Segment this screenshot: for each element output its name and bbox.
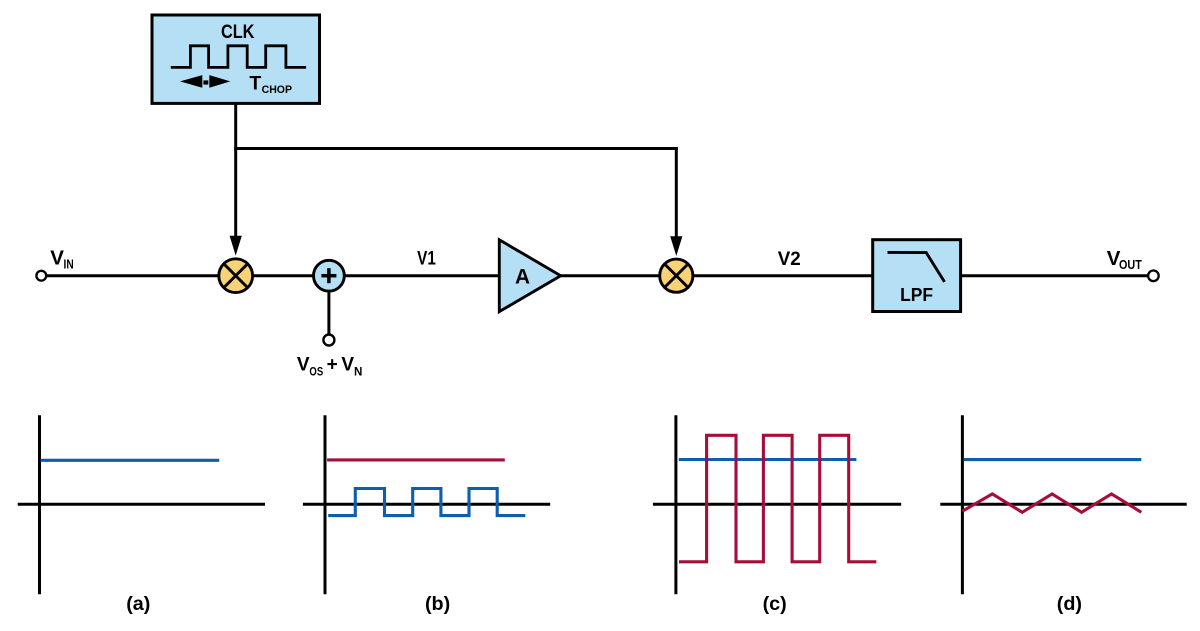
Vos+Vn label — [297, 354, 362, 378]
CLK square wave icon — [171, 46, 306, 68]
mixer M2 (demod multiplier) — [660, 259, 693, 292]
wire M1 to summer — [253, 274, 314, 277]
svg-text:LPF: LPF — [900, 284, 933, 305]
graph a blue DC trace — [41, 459, 220, 462]
svg-text:(c): (c) — [763, 593, 787, 615]
summing junction S1 — [314, 260, 345, 291]
wire M2 to LPF — [693, 274, 874, 277]
Tchop label — [249, 73, 292, 97]
Tchop double arrow — [180, 75, 230, 88]
svg-text:V: V — [297, 354, 310, 375]
svg-text:A: A — [515, 265, 530, 288]
wire summer to amp — [344, 274, 500, 277]
wire CLK to mixer M1 (vertical) — [234, 103, 237, 238]
graph d red ripple trace — [962, 494, 1141, 512]
svg-text:IN: IN — [64, 258, 74, 272]
wire clock branch down to M2 — [675, 147, 678, 239]
arrowhead into M1 — [230, 236, 242, 256]
wire summer to Vos terminal — [327, 291, 330, 334]
mixer M1 (chopper multiplier) — [219, 259, 253, 293]
op-amp A — [499, 240, 560, 312]
svg-text:CHOP: CHOP — [262, 84, 293, 96]
svg-text:V: V — [341, 354, 354, 375]
wire clock branch (horizontal) — [234, 147, 678, 150]
graph c blue amplified signal trace — [679, 458, 857, 461]
VOUT label — [1107, 247, 1142, 272]
svg-text:(b): (b) — [425, 593, 450, 615]
svg-text:T: T — [249, 73, 261, 95]
wire LPF to VOUT — [961, 274, 1148, 277]
svg-text:CLK: CLK — [221, 21, 255, 43]
LPF box U2 — [873, 240, 961, 312]
graph b blue chopped trace — [328, 489, 525, 516]
terminal Vos+Vn — [323, 335, 334, 346]
svg-text:V2: V2 — [778, 248, 801, 270]
svg-text:OS: OS — [309, 365, 323, 378]
graph c axes — [653, 415, 901, 594]
graph a axes — [18, 415, 265, 594]
svg-text:+: + — [327, 354, 338, 375]
terminal VIN — [36, 271, 46, 281]
graph d blue DC output trace — [964, 458, 1142, 461]
graph b red offset trace — [327, 458, 505, 461]
graph d axes — [940, 415, 1186, 594]
svg-text:V: V — [50, 247, 64, 270]
graph c red modulated square trace — [679, 435, 876, 562]
svg-text:N: N — [354, 365, 362, 378]
graph b axes — [303, 415, 550, 594]
arrowhead into M2 — [670, 236, 682, 256]
wire amp to M2 — [561, 274, 660, 277]
svg-text:(d): (d) — [1057, 593, 1082, 615]
svg-text:V1: V1 — [417, 247, 436, 269]
svg-text:OUT: OUT — [1119, 258, 1142, 272]
terminal VOUT — [1148, 271, 1159, 282]
svg-text:(a): (a) — [126, 593, 150, 615]
CLK box U1 — [152, 15, 320, 103]
wire VIN to M1 — [46, 274, 219, 277]
VIN label — [50, 247, 73, 272]
